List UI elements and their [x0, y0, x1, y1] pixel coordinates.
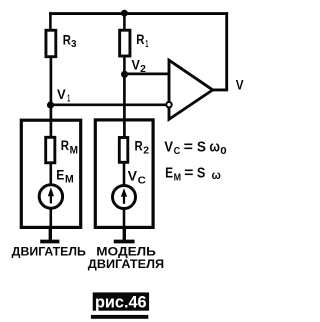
label R3: [63, 31, 77, 50]
label VC: [128, 168, 146, 187]
source EM arrow: [50, 194, 52, 204]
wire V2 to non-inverting input: [125, 73, 170, 76]
svg-text:C: C: [174, 145, 181, 157]
resistor R1: [120, 30, 130, 56]
ground stub model: [123, 227, 126, 240]
wire top horizontal bus: [49, 12, 228, 15]
svg-text:R: R: [61, 137, 69, 153]
label R2: [135, 137, 150, 156]
svg-text:рис.46: рис.46: [95, 293, 147, 311]
svg-text:3: 3: [71, 39, 77, 50]
caption box рис.46: [93, 292, 149, 310]
svg-text:ω: ω: [209, 139, 220, 156]
svg-text:S: S: [197, 165, 206, 182]
source EM circle: [39, 185, 62, 208]
bottom artifact bar: [91, 315, 148, 319]
equation VC = S w0: [164, 138, 227, 157]
svg-text:R: R: [135, 137, 143, 153]
wire R2 to VC source: [123, 162, 126, 186]
svg-text:=: =: [184, 165, 194, 182]
wire R3 to node V1 to RM: [50, 57, 53, 138]
svg-text:C: C: [138, 175, 146, 186]
ground stub motor: [49, 227, 52, 240]
svg-text:S: S: [197, 138, 206, 155]
op-amp U1 triangle: [169, 60, 213, 119]
svg-text:ДВИГАТЕЛЯ: ДВИГАТЕЛЯ: [88, 257, 164, 271]
svg-text:1: 1: [145, 39, 148, 50]
svg-text:M: M: [65, 173, 74, 185]
svg-text:E: E: [165, 165, 173, 182]
svg-text:0: 0: [220, 145, 227, 157]
svg-text:1: 1: [67, 93, 70, 104]
wire VC to box bottom: [123, 210, 126, 227]
wire right vertical feedback: [225, 12, 228, 90]
svg-text:E: E: [56, 167, 64, 183]
svg-text:V: V: [128, 168, 138, 184]
svg-text:R: R: [136, 31, 144, 47]
svg-text:=: =: [184, 138, 194, 155]
wire R1 to node V2: [123, 56, 126, 74]
svg-text:V: V: [236, 77, 244, 92]
svg-text:V: V: [164, 138, 173, 155]
svg-text:M: M: [174, 171, 182, 183]
svg-text:V: V: [132, 57, 141, 73]
wire left drop to R3: [49, 12, 52, 30]
wire op-amp output segment: [212, 88, 228, 91]
wire RM to EM source: [49, 163, 52, 186]
wire V1 to inverting input: [51, 103, 167, 106]
model box: [95, 120, 153, 227]
label V2: [132, 57, 147, 75]
label V1: [57, 86, 70, 104]
label RM: [61, 137, 78, 156]
svg-text:M: M: [70, 144, 78, 156]
motor box: [21, 120, 80, 227]
resistor R3: [46, 30, 56, 56]
svg-text:2: 2: [143, 145, 149, 156]
node V1 dot: [47, 101, 54, 108]
svg-text:ДВИГАТЕЛЬ: ДВИГАТЕЛЬ: [12, 245, 87, 259]
source VC arrow: [123, 195, 125, 204]
resistor R2: [119, 138, 128, 163]
node junction dot on top bus: [121, 10, 128, 17]
equation EM = S w: [165, 165, 221, 184]
svg-text:ω: ω: [212, 168, 221, 182]
label R1: [136, 31, 148, 50]
svg-text:R: R: [63, 31, 71, 47]
op-amp inverting bubble: [166, 102, 171, 107]
ground bar motor: [40, 240, 59, 244]
svg-text:V: V: [57, 86, 66, 102]
resistor RM: [46, 137, 55, 163]
source VC circle: [113, 186, 136, 209]
svg-text:2: 2: [140, 64, 146, 75]
wire EM to box bottom: [49, 210, 52, 228]
ground bar model: [114, 240, 135, 244]
wire V2 down to model R2 crossing V1 wire: [123, 74, 126, 138]
label EM: [56, 167, 73, 186]
node V2 dot: [121, 71, 128, 78]
wire drop from junction dot to R1: [123, 12, 126, 30]
